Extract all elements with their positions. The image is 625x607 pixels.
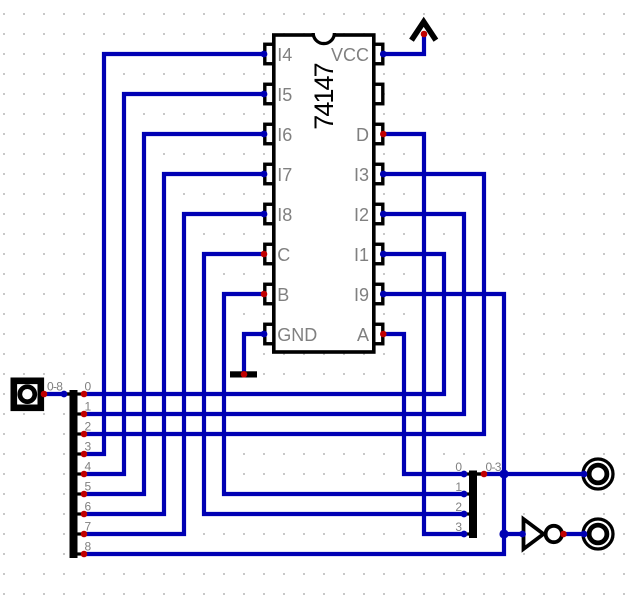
node splitter S2 input 3 — [461, 531, 468, 538]
svg-text:B: B — [277, 285, 289, 305]
svg-text:2: 2 — [455, 500, 462, 514]
pin 2 I5 — [265, 84, 274, 104]
node pin B connection — [261, 291, 268, 298]
pin 3 I6 — [265, 124, 274, 144]
node splitter S2 input 0 — [461, 471, 468, 478]
node splitter S1 output 8 — [81, 551, 88, 558]
wire splitter bit2 to I3 — [84, 174, 484, 434]
splitter S1 bus 0-8 bar — [70, 390, 78, 558]
node output pin OUT1 input port — [581, 471, 588, 478]
node splitter S2 input 2 — [461, 511, 468, 518]
node pin I8 connection — [261, 211, 268, 218]
node pin C connection — [261, 251, 268, 258]
svg-text:74147: 74147 — [309, 63, 339, 129]
splitter S1 output 6 stub — [77, 512, 85, 515]
inverter U2 (NOT gate) — [524, 519, 544, 549]
node splitter S1 output 7 — [81, 531, 88, 538]
wire splitter bit7 to I8 — [84, 214, 264, 534]
pin 13 I3 — [374, 164, 383, 184]
svg-text:GND: GND — [277, 325, 317, 345]
svg-text:0: 0 — [455, 460, 462, 474]
wire A output to out-splitter 0 — [384, 334, 464, 474]
svg-text:0-8: 0-8 — [47, 380, 63, 394]
splitter S1 output 7 stub — [77, 532, 85, 535]
splitter S2 bus stub — [477, 472, 484, 475]
pin 9 A — [374, 324, 383, 344]
splitter S2 input 1 stub — [464, 492, 470, 495]
power VCC symbol — [412, 22, 436, 40]
wire splitter bit1 to I2 — [84, 214, 464, 414]
node pin I7 connection — [261, 171, 268, 178]
pin 10 I9 — [374, 284, 383, 304]
node splitter S1 output 4 — [81, 471, 88, 478]
wire splitter bit5 to I6 — [84, 134, 264, 494]
node splitter S2 bus output — [481, 471, 488, 478]
svg-text:I6: I6 — [277, 125, 292, 145]
wire splitter bit8 to I9 — [84, 294, 504, 554]
wire splitter bit6 to I7 — [84, 174, 264, 514]
pin 4 I7 — [265, 164, 274, 184]
splitter S2 input 2 stub — [464, 512, 470, 515]
node splitter S2 input 1 — [461, 491, 468, 498]
wire junction to inverter input — [504, 532, 522, 536]
node pin I9 connection — [380, 291, 387, 298]
svg-text:I4: I4 — [277, 45, 292, 65]
node junction inverter input — [499, 529, 508, 538]
splitter S1 output 8 stub — [77, 552, 85, 555]
splitter S1 bus stub — [64, 392, 70, 395]
node splitter S1 output 0 — [81, 391, 88, 398]
svg-text:I7: I7 — [277, 165, 292, 185]
svg-text:VCC: VCC — [331, 45, 369, 65]
node pin I5 connection — [261, 91, 268, 98]
pin 16 VCC — [374, 44, 383, 64]
svg-text:I2: I2 — [354, 205, 369, 225]
output pin OUT2 (inverter) — [583, 519, 613, 549]
node pin I6 connection — [261, 131, 268, 138]
svg-text:0-3: 0-3 — [486, 460, 502, 474]
output pin OUT1 (bus 0-3) — [583, 459, 613, 489]
wire splitter bit4 to I5 — [84, 94, 264, 474]
svg-text:3: 3 — [455, 520, 462, 534]
node inverter input — [519, 531, 526, 538]
IC notch — [313, 33, 335, 44]
svg-text:A: A — [357, 325, 369, 345]
svg-text:I5: I5 — [277, 85, 292, 105]
node pin A connection — [380, 331, 387, 338]
pin 14 D — [374, 124, 383, 144]
splitter S1 output 5 stub — [77, 492, 85, 495]
wire splitter bit3 to I4 — [84, 54, 264, 454]
node pin GND connection — [261, 331, 268, 338]
node splitter S1 bus input — [61, 391, 68, 398]
pin 8 GND — [265, 324, 274, 344]
svg-text:I3: I3 — [354, 165, 369, 185]
wire inverter output to output pin — [564, 532, 584, 536]
node ground connection — [241, 371, 248, 378]
svg-text:C: C — [277, 245, 290, 265]
node output pin OUT2 input port — [581, 531, 588, 538]
node pin D connection — [380, 131, 387, 138]
splitter S1 output 4 stub — [77, 472, 85, 475]
node pin I1 connection — [380, 251, 387, 258]
node splitter S1 output 1 — [81, 411, 88, 418]
IC U1 74147 body — [274, 35, 374, 352]
splitter S2 input 0 stub — [464, 472, 470, 475]
ground symbol — [230, 371, 257, 377]
pin 15 NC — [374, 84, 383, 104]
splitter S1 output 3 stub — [77, 452, 85, 455]
input pin IN (0-8) square — [14, 381, 41, 408]
node pin I4 connection — [261, 51, 268, 58]
splitter S1 output 0 stub — [77, 392, 85, 395]
wire C output to out-splitter 2 — [204, 254, 464, 514]
node input pin output port — [41, 391, 48, 398]
pin 11 I1 — [374, 244, 383, 264]
node splitter S1 output 5 — [81, 491, 88, 498]
wire splitter bit0 to I1 — [84, 254, 444, 394]
splitter S2 input 3 stub — [464, 532, 470, 535]
pin 7 B — [265, 284, 274, 304]
pin 12 I2 — [374, 204, 383, 224]
node pin VCC connection — [380, 51, 387, 58]
svg-text:1: 1 — [455, 480, 462, 494]
node power connection — [421, 31, 428, 38]
svg-text:D: D — [356, 125, 369, 145]
svg-text:I8: I8 — [277, 205, 292, 225]
node pin I2 connection — [380, 211, 387, 218]
wire D output to out-splitter 3 — [384, 134, 464, 534]
node inverter output — [560, 531, 567, 538]
node splitter S1 output 2 — [81, 431, 88, 438]
node junction bus/I9 net — [499, 469, 508, 478]
node pin I3 connection — [380, 171, 387, 178]
svg-text:I9: I9 — [354, 285, 369, 305]
splitter S1 output 1 stub — [77, 412, 85, 415]
pin 1 I4 — [265, 44, 274, 64]
splitter S2 bus 0-3 bar — [469, 471, 477, 539]
wire GND pin to ground — [244, 334, 264, 372]
splitter S1 output 2 stub — [77, 432, 85, 435]
svg-text:I1: I1 — [354, 245, 369, 265]
wire VCC pin to power — [384, 34, 424, 54]
pin 6 C — [265, 244, 274, 264]
pin 5 I8 — [265, 204, 274, 224]
wire B output to out-splitter 1 — [224, 294, 464, 494]
wire out-splitter bus to output pin — [484, 472, 584, 476]
node splitter S1 output 6 — [81, 511, 88, 518]
node splitter S1 output 3 — [81, 451, 88, 458]
wire input pin to splitter bus — [44, 392, 64, 396]
